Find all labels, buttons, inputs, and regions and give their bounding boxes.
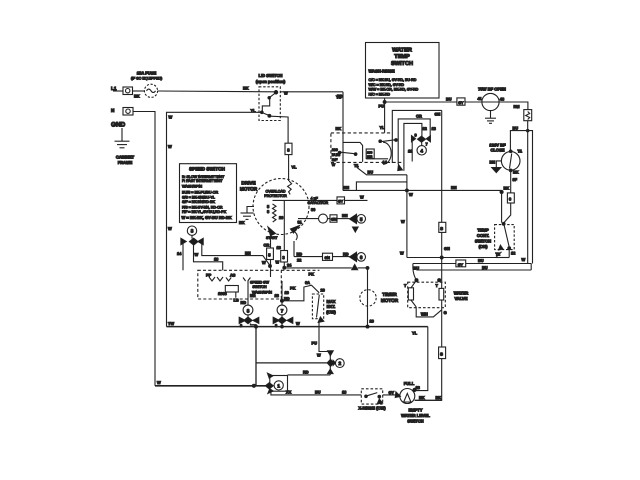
svg-text:AS: AS xyxy=(230,273,236,278)
svg-text:PU: PU xyxy=(312,341,318,346)
svg-text:7: 7 xyxy=(426,142,428,147)
svg-text:VL: VL xyxy=(292,165,298,170)
svg-text:VALVE: VALVE xyxy=(454,296,467,301)
node above circle 2 xyxy=(328,351,334,360)
svg-text:EXT.: EXT. xyxy=(327,304,336,309)
terminal circle 7 xyxy=(277,305,287,315)
svg-text:(ON): (ON) xyxy=(479,244,489,249)
wire line A xyxy=(400,251,509,258)
wire 75W right to resistor box xyxy=(499,102,528,110)
svg-text:WATER: WATER xyxy=(454,291,469,296)
wire motor arm down to circle6 row xyxy=(293,241,295,257)
temp cont switch S3 xyxy=(495,222,517,257)
connector box GY on line B xyxy=(456,260,466,267)
svg-text:BK: BK xyxy=(243,86,249,91)
node at circle 5 xyxy=(350,214,359,232)
svg-text:GN: GN xyxy=(444,246,450,251)
svg-text:GN: GN xyxy=(325,256,331,260)
label FULL xyxy=(404,381,421,390)
wire x-rinse to water level switch xyxy=(383,390,400,395)
box 180 label xyxy=(366,149,374,159)
stub left of circle 4 xyxy=(408,133,428,162)
cam follower D arc xyxy=(379,139,397,165)
svg-text:9F: 9F xyxy=(513,177,518,182)
svg-text:SWITCH: SWITCH xyxy=(391,61,413,67)
svg-text:C/C = BK-BU, GY-RD, BU-RD: C/C = BK-BU, GY-RD, BU-RD xyxy=(369,78,417,82)
wire motor top line GY xyxy=(273,195,368,201)
wire L1 down to BN bus xyxy=(336,92,344,191)
svg-text:5: 5 xyxy=(360,217,363,222)
svg-text:BK: BK xyxy=(134,94,140,99)
wire lid switch out right xyxy=(251,91,344,114)
connector box on 75W wire xyxy=(457,98,465,105)
svg-text:W = BK-BK, GY-BU RD-BK: W = BK-BK, GY-BU RD-BK xyxy=(182,215,232,220)
x-rinse switch xyxy=(361,389,382,404)
wire node mid branch xyxy=(194,245,223,270)
svg-text:YL: YL xyxy=(251,108,257,113)
node under circle 8 xyxy=(239,315,259,328)
120V BF motor symbol xyxy=(501,149,522,175)
svg-text:CABINET: CABINET xyxy=(116,155,135,160)
svg-text:SWITCH: SWITCH xyxy=(252,285,267,289)
svg-text:OR: OR xyxy=(416,113,422,118)
wire node right branch to box5 xyxy=(202,244,270,266)
svg-text:BN: BN xyxy=(344,185,350,190)
wire L1 to lid switch xyxy=(133,86,275,99)
svg-text:3: 3 xyxy=(191,229,194,234)
connector box on GN vertical upper xyxy=(439,222,446,232)
connector box GN on circle6 row xyxy=(323,253,333,260)
svg-text:W: W xyxy=(195,252,199,257)
wire X-RINSE row xyxy=(271,390,361,395)
svg-text:BR: BR xyxy=(250,293,256,298)
wire circle7 node down to TW bus xyxy=(281,324,284,328)
svg-text:30: 30 xyxy=(311,207,315,212)
wire box3 junction to circle6 node xyxy=(284,267,369,270)
svg-text:(CW): (CW) xyxy=(326,310,336,315)
wire BN bus to temp switch xyxy=(343,185,503,223)
svg-text:CAPACITOR: CAPACITOR xyxy=(308,201,329,205)
wire node down to loop top xyxy=(328,367,333,375)
svg-text:SWITCH: SWITCH xyxy=(407,419,423,424)
svg-text:180: 180 xyxy=(332,148,338,152)
ground at 120V xyxy=(490,160,502,173)
wire circle8 node down xyxy=(251,324,258,388)
timer motor TM xyxy=(360,268,376,328)
svg-text:RD: RD xyxy=(297,252,303,257)
svg-text:WATER LEVEL: WATER LEVEL xyxy=(401,413,430,418)
svg-text:BU: BU xyxy=(368,170,374,175)
svg-text:RM: RM xyxy=(514,104,520,109)
terminal circle 6 xyxy=(357,253,366,262)
svg-text:W: W xyxy=(169,115,173,120)
svg-text:S/F: S/F xyxy=(332,158,338,162)
svg-text:BN: BN xyxy=(342,213,348,218)
svg-text:BK: BK xyxy=(513,170,519,175)
wire to circle 5 xyxy=(337,213,350,219)
wire 120V bypass loop xyxy=(510,131,532,264)
motor ground xyxy=(239,207,254,226)
svg-text:CONT.: CONT. xyxy=(477,233,489,238)
node at circle 2 xyxy=(327,359,335,366)
svg-text:S/S = BK-GN/BU-YL: S/S = BK-GN/BU-YL xyxy=(182,195,215,199)
svg-text:GN: GN xyxy=(331,217,337,221)
svg-text:W: W xyxy=(296,321,300,326)
terminal N xyxy=(123,108,133,116)
svg-text:6A: 6A xyxy=(305,280,310,285)
wire water temp sw down xyxy=(379,98,387,133)
wire circle 2 row xyxy=(256,362,329,364)
timer cam dashed boundary xyxy=(331,133,402,163)
svg-text:WASH/SPIN: WASH/SPIN xyxy=(182,185,202,189)
connector box on VL wire xyxy=(285,143,292,154)
GN outer rectangle xyxy=(392,110,441,163)
node N xyxy=(111,108,115,113)
box 3 connector below motor xyxy=(276,233,293,270)
svg-text:BK: BK xyxy=(336,126,342,131)
svg-text:10: 10 xyxy=(285,290,289,295)
svg-text:BU: BU xyxy=(478,258,484,263)
svg-text:SPEED SWITCH: SPEED SWITCH xyxy=(189,167,225,172)
svg-text:7: 7 xyxy=(281,308,284,313)
svg-text:G: G xyxy=(444,310,447,315)
svg-text:BN: BN xyxy=(490,160,496,165)
svg-text:W: W xyxy=(262,260,266,265)
svg-text:TW: TW xyxy=(168,321,174,326)
svg-text:BK: BK xyxy=(239,220,245,225)
svg-text:75W BF OPEN: 75W BF OPEN xyxy=(478,87,506,92)
connector box on GN vertical lower xyxy=(439,347,446,359)
svg-text:W: W xyxy=(400,251,404,256)
wire circle6 row xyxy=(294,251,350,262)
label X-RINSE xyxy=(358,406,386,411)
terminal circle 5 xyxy=(357,215,366,224)
svg-text:20: 20 xyxy=(321,288,325,293)
wire node left branch xyxy=(177,244,183,271)
connector box on capacitor line xyxy=(330,215,337,222)
wire contact to circle 7 xyxy=(275,281,290,305)
svg-text:F/F = BK-YL,GY-BU,RD-PK: F/F = BK-YL,GY-BU,RD-PK xyxy=(182,210,227,214)
speed switch contacts xyxy=(206,273,250,303)
terminal circle 2 xyxy=(335,359,344,368)
svg-text:W: W xyxy=(522,257,526,262)
svg-text:MOTOR: MOTOR xyxy=(381,298,399,303)
cam contact block xyxy=(332,142,363,167)
svg-text:6: 6 xyxy=(360,255,363,260)
75W BF motor symbol xyxy=(482,93,505,110)
label EMPTY WATER LEVEL SWITCH xyxy=(401,408,430,424)
label TEMP CONT SWITCH xyxy=(475,228,491,250)
svg-text:WATER: WATER xyxy=(392,48,412,54)
wire box6 to temp switch xyxy=(504,186,511,223)
svg-text:BU/S: BU/S xyxy=(332,153,341,157)
drive motor M1 xyxy=(253,179,309,251)
OR inner rectangle xyxy=(398,113,430,170)
svg-text:PK: PK xyxy=(290,286,296,291)
wire lid switch down VL xyxy=(289,155,297,181)
svg-text:BK: BK xyxy=(436,395,442,400)
svg-text:W: W xyxy=(276,260,280,265)
svg-text:GND: GND xyxy=(111,122,126,129)
ground cabinet xyxy=(115,128,130,148)
svg-text:(IF SO EQUIPPED): (IF SO EQUIPPED) xyxy=(131,77,162,81)
label TIMER MOTOR xyxy=(381,292,399,303)
wire line B left drop to valve xyxy=(413,264,419,282)
svg-text:F: FAST INTERMITTENT: F: FAST INTERMITTENT xyxy=(182,179,223,183)
svg-text:W: W xyxy=(317,353,321,358)
water level switch xyxy=(395,388,416,403)
svg-text:F/S = BK-GY-BN, RD-OR: F/S = BK-GY-BN, RD-OR xyxy=(182,205,223,209)
label 15A FUSE xyxy=(131,71,162,81)
heavy TW bus xyxy=(167,321,428,327)
svg-text:2: 2 xyxy=(338,361,341,366)
water valve V1 xyxy=(404,279,447,317)
svg-text:W/W = BK-OR, BK-RD, GY-RD: W/W = BK-OR, BK-RD, GY-RD xyxy=(369,88,419,92)
svg-text:PP: PP xyxy=(206,273,212,278)
svg-text:8: 8 xyxy=(247,308,250,313)
connector box GY on top line xyxy=(337,197,345,204)
wire line B right label xyxy=(522,257,526,262)
svg-text:YL: YL xyxy=(412,331,418,336)
wire 120V down to box6 xyxy=(511,170,518,193)
svg-text:(open position): (open position) xyxy=(256,79,286,84)
label 75W BF OPEN xyxy=(478,87,506,92)
wire line B xyxy=(413,258,532,264)
svg-text:TIMER: TIMER xyxy=(382,292,397,297)
svg-text:X-RINSE (CW): X-RINSE (CW) xyxy=(358,406,386,411)
terminal L1 xyxy=(113,87,133,95)
svg-text:S: S xyxy=(440,226,443,231)
label DRIVE MOTOR xyxy=(240,181,258,192)
label SPEED SWITCH legend xyxy=(180,164,237,223)
wire contact T1 diagonal xyxy=(357,167,407,174)
svg-text:W: W xyxy=(401,219,405,224)
svg-text:START: START xyxy=(266,236,278,240)
svg-text:CLOSE: CLOSE xyxy=(490,148,504,153)
node at circle 4 xyxy=(412,136,431,143)
svg-text:BU: BU xyxy=(446,97,452,102)
fuse F1 xyxy=(144,84,157,97)
terminal circle 4 xyxy=(417,142,426,155)
wire water level switch right xyxy=(415,395,442,400)
svg-text:S: S xyxy=(440,352,443,357)
node L1 xyxy=(111,86,117,91)
wire PU cam down xyxy=(312,322,331,357)
node under circle 3 xyxy=(181,235,203,245)
wire W vertical long xyxy=(401,175,413,258)
label LID SWITCH xyxy=(256,73,286,84)
GN long vertical xyxy=(415,110,450,400)
svg-text:15A FUSE: 15A FUSE xyxy=(137,71,157,76)
svg-text:LID SWITCH: LID SWITCH xyxy=(259,73,283,78)
svg-text:YL: YL xyxy=(380,125,386,130)
svg-text:BU: BU xyxy=(482,265,488,270)
svg-text:GY: GY xyxy=(338,199,344,203)
svg-text:BU/S = BK-PU/BU-OR: BU/S = BK-PU/BU-OR xyxy=(182,191,218,195)
svg-text:4: 4 xyxy=(420,148,423,153)
wire N down left rail xyxy=(133,112,161,386)
svg-text:GY: GY xyxy=(458,263,464,267)
speed switch S2 dashed box xyxy=(198,270,320,299)
connector box 6 xyxy=(507,193,514,203)
svg-text:PU: PU xyxy=(379,104,385,109)
svg-text:YL: YL xyxy=(336,95,342,100)
svg-text:W: W xyxy=(332,163,336,167)
max ext cam switch xyxy=(312,294,323,322)
svg-text:EMPTY: EMPTY xyxy=(408,408,422,413)
svg-text:MOTOR: MOTOR xyxy=(240,187,258,192)
svg-text:PROTECTOR: PROTECTOR xyxy=(264,194,287,198)
label WATER VALVE xyxy=(454,291,469,302)
svg-text:FRAME: FRAME xyxy=(118,160,133,165)
svg-text:4 µF: 4 µF xyxy=(311,197,319,201)
label GND xyxy=(111,122,126,129)
wire TW corner to FULL xyxy=(412,327,428,391)
wire MAX EXT feed xyxy=(281,272,325,303)
svg-text:W/C = BK-RD, GY-RD: W/C = BK-RD, GY-RD xyxy=(369,83,405,87)
wire line C xyxy=(416,264,531,271)
node at circle 6 xyxy=(350,252,358,269)
circle 1 block xyxy=(265,373,287,393)
wire contact to circle 8 xyxy=(241,281,256,305)
label CABINET FRAME xyxy=(116,155,135,166)
svg-text:BK: BK xyxy=(419,395,425,400)
svg-text:GN: GN xyxy=(435,112,441,117)
svg-text:RD: RD xyxy=(343,251,349,256)
svg-text:TEMP: TEMP xyxy=(394,54,410,60)
wire under box180 xyxy=(354,159,388,168)
wire loop top row xyxy=(288,370,331,375)
svg-text:W: W xyxy=(157,380,161,385)
svg-text:FULL: FULL xyxy=(404,381,415,386)
svg-text:BU: BU xyxy=(513,126,519,131)
svg-text:S/F = BK-BN/RD-BK: S/F = BK-BN/RD-BK xyxy=(182,200,215,204)
svg-text:BK: BK xyxy=(504,186,510,191)
svg-text:WH: WH xyxy=(421,311,428,316)
box 5 connector below motor xyxy=(262,235,273,277)
svg-text:W: W xyxy=(360,195,364,200)
svg-text:H/C = BK-RD: H/C = BK-RD xyxy=(369,92,391,96)
svg-text:W: W xyxy=(168,226,172,231)
label 120V BF CLOSE xyxy=(489,143,506,153)
svg-text:OR: OR xyxy=(264,243,270,248)
svg-text:GY: GY xyxy=(458,101,464,105)
svg-text:PK: PK xyxy=(309,272,315,277)
svg-text:GY: GY xyxy=(389,390,395,395)
svg-text:L1: L1 xyxy=(111,86,117,91)
svg-text:TEMP: TEMP xyxy=(477,228,489,233)
svg-text:RD: RD xyxy=(303,370,309,375)
ground under 75W xyxy=(485,111,496,124)
label 4uF CAPACITOR xyxy=(308,197,329,213)
wire to 75W timer contact xyxy=(385,96,483,102)
inner rectangle 2 xyxy=(404,123,437,170)
node under circle 7 xyxy=(273,315,293,328)
svg-text:1808: 1808 xyxy=(218,291,227,296)
terminal circle 8 xyxy=(243,305,253,315)
svg-text:DRIVE: DRIVE xyxy=(241,181,255,186)
svg-text:BU: BU xyxy=(414,265,420,270)
label WATER TEMP SWITCH xyxy=(366,43,440,99)
terminal circle 3 xyxy=(187,226,196,235)
resistor box xyxy=(524,110,532,121)
terminal circle 1 xyxy=(274,381,283,390)
svg-text:BN: BN xyxy=(451,185,457,190)
capacitor C1 xyxy=(298,214,331,224)
svg-text:W: W xyxy=(409,192,413,197)
svg-text:1S2: 1S2 xyxy=(367,154,373,158)
svg-text:BN: BN xyxy=(245,251,251,256)
wire resistor to loop xyxy=(513,121,529,264)
svg-text:XX: XX xyxy=(286,390,292,395)
svg-text:W: W xyxy=(168,144,172,149)
wire W to lid switch lower pole xyxy=(167,112,261,326)
svg-text:W: W xyxy=(284,91,288,96)
wire 182 row xyxy=(356,182,407,191)
svg-text:RD: RD xyxy=(241,300,247,305)
svg-text:SWITCH: SWITCH xyxy=(475,239,491,244)
label MAX EXT xyxy=(326,299,336,315)
svg-text:LB: LB xyxy=(234,298,239,303)
lid switch S1 xyxy=(259,87,288,143)
svg-text:1: 1 xyxy=(277,384,280,389)
svg-text:BU: BU xyxy=(315,390,321,395)
svg-text:WASH-RINSE: WASH-RINSE xyxy=(369,69,395,74)
heavy W bus bottom xyxy=(155,385,267,387)
